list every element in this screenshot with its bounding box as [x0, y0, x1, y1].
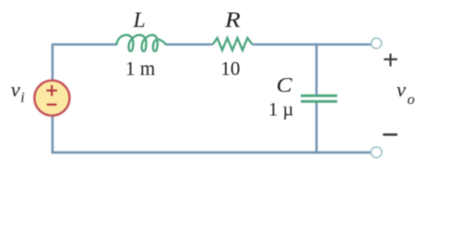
svg-text:vo: vo [397, 78, 416, 109]
wire bottom horizontal [51, 151, 371, 153]
svg-text:vi: vi [11, 77, 25, 106]
voltage source Vi [34, 80, 69, 115]
resistor R1 [213, 38, 253, 50]
wire capacitor branch lower [315, 101, 317, 153]
wire top-left (left vertical through source, corner, to inductor) [53, 44, 117, 152]
svg-text:1 µ: 1 µ [268, 99, 293, 120]
svg-text:10: 10 [221, 59, 241, 80]
terminal bottom [371, 147, 382, 158]
terminal top [371, 38, 381, 48]
wire capacitor branch upper [315, 43, 317, 95]
capacitor C1 [301, 96, 337, 102]
wire resistor to top terminal [252, 43, 371, 45]
inductor L1 [117, 35, 167, 51]
svg-text:1 m: 1 m [125, 59, 155, 80]
svg-text:R: R [224, 7, 241, 32]
label minus (output) [383, 133, 397, 135]
wire inductor to resistor [166, 43, 213, 45]
label plus (output) [384, 54, 397, 67]
svg-text:L: L [132, 7, 145, 32]
svg-text:C: C [276, 73, 293, 97]
